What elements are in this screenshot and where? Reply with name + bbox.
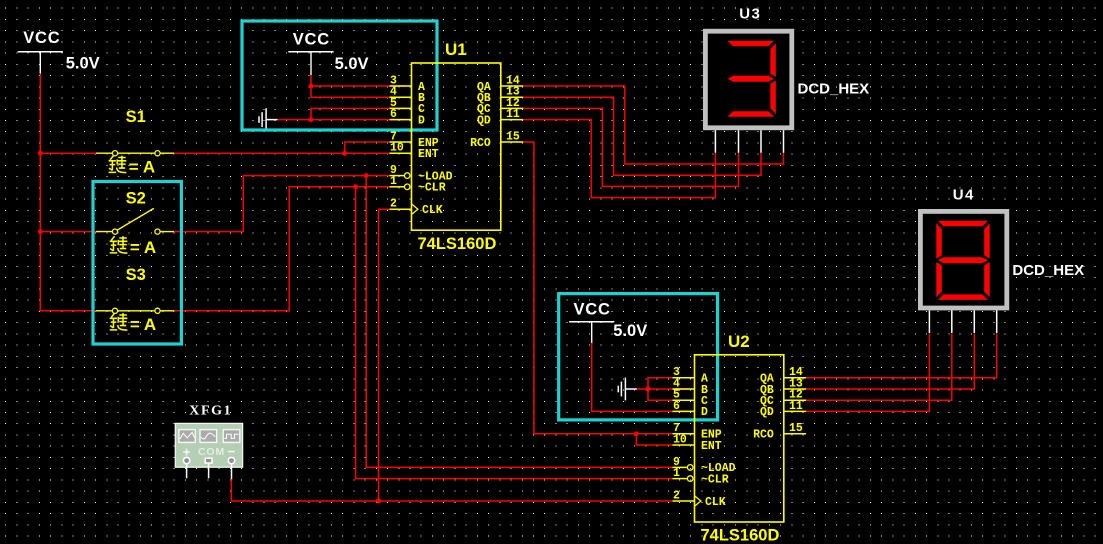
selection box around S2 S3 xyxy=(93,182,181,345)
wire S1 to U1 ENT xyxy=(174,152,390,154)
svg-text:QD: QD xyxy=(760,406,774,419)
wire branch to U2 pin A xyxy=(648,378,689,389)
wire branch to U1 pin B xyxy=(311,86,406,97)
U2 pin 3 A xyxy=(673,377,695,379)
power VCC for U1 xyxy=(288,31,368,76)
U4 display pin 2 xyxy=(951,310,953,333)
U1 pin 7 ENP xyxy=(390,141,412,143)
U2 pin 15 RCO xyxy=(784,433,806,435)
svg-text:10: 10 xyxy=(390,142,404,155)
svg-text:74LS160D: 74LS160D xyxy=(418,235,497,253)
lit segments of digit xyxy=(727,41,774,47)
switch key label for S3 xyxy=(110,313,156,334)
svg-text:5.0V: 5.0V xyxy=(335,55,369,73)
wire ground to U2 pin B xyxy=(637,388,689,390)
svg-text:D: D xyxy=(418,114,425,127)
wire U2 QD to U4 pin1 xyxy=(806,334,930,412)
switch S3 SPST key A bottom xyxy=(96,266,174,313)
U1 pin 5 C xyxy=(390,107,412,109)
U2 pin 9 ~LOAD xyxy=(673,466,688,468)
U2 pin 10 ENT xyxy=(673,444,695,446)
7-segment display U3 DCD_HEX xyxy=(705,31,791,153)
svg-text:RCO: RCO xyxy=(470,137,491,150)
function generator XFG1 xyxy=(175,404,242,480)
svg-text:2: 2 xyxy=(390,198,397,211)
svg-text:CLK: CLK xyxy=(705,496,726,509)
svg-text:= A: = A xyxy=(129,157,155,176)
svg-text:15: 15 xyxy=(789,422,803,435)
U1 pin 6 D xyxy=(390,119,412,121)
U3 display pin 4 xyxy=(783,130,785,153)
wire U1 CLK down to clock bus xyxy=(379,209,390,501)
U1 pin 10 ENT xyxy=(390,152,412,154)
U2 pin 4 B xyxy=(673,388,695,390)
selection box around U2 VCC subcircuit xyxy=(559,294,718,420)
wire junction xyxy=(38,229,43,234)
svg-text:15: 15 xyxy=(506,130,520,143)
U2 pin 7 ENP xyxy=(673,433,695,435)
svg-text:XFG1: XFG1 xyxy=(189,404,232,419)
svg-text:ENT: ENT xyxy=(418,148,439,161)
U1 pin 13 QB xyxy=(501,96,523,98)
svg-text:VCC: VCC xyxy=(293,31,330,49)
svg-text:10: 10 xyxy=(673,433,687,446)
U4 display pin 1 xyxy=(928,310,930,333)
svg-text:~CLR: ~CLR xyxy=(418,182,446,195)
svg-text:5.0V: 5.0V xyxy=(613,322,647,340)
switch key label for S2 xyxy=(110,236,156,257)
wire U2 QB to U4 pin3 xyxy=(806,334,975,389)
wire U1 QA to U3 pin4 xyxy=(523,86,784,164)
ground in U1 VCC box xyxy=(259,108,278,131)
U2 pin 2 CLK xyxy=(673,500,695,502)
svg-text:2: 2 xyxy=(673,489,680,502)
IC U1 74LS160D counter body xyxy=(390,40,524,253)
wire junction xyxy=(353,184,358,189)
wire junction xyxy=(309,117,314,122)
wire branch up to U1 ENP xyxy=(345,142,390,153)
U2 pin 5 C xyxy=(673,399,695,401)
wire VCC to U2 pin D xyxy=(592,343,689,412)
U2 pin 6 D xyxy=(673,410,695,412)
svg-text:VCC: VCC xyxy=(574,301,611,319)
svg-text:CLK: CLK xyxy=(422,204,443,217)
wire rail to S2 xyxy=(40,231,101,233)
U1 pin 9 ~LOAD xyxy=(390,175,405,177)
svg-text:COM: COM xyxy=(198,446,225,458)
wire U2 QC to U4 pin2 xyxy=(806,334,952,401)
svg-text:S2: S2 xyxy=(126,189,146,207)
svg-text:74LS160D: 74LS160D xyxy=(701,527,780,544)
switch S2 SPST key A middle xyxy=(96,189,174,234)
power VCC for U2 xyxy=(569,301,647,343)
wire U1 QD to U3 pin1 xyxy=(523,120,716,198)
svg-text:6: 6 xyxy=(390,108,397,121)
svg-text:5.0V: 5.0V xyxy=(66,54,100,72)
U1 pin 2 CLK xyxy=(390,208,412,210)
svg-text:VCC: VCC xyxy=(23,29,60,47)
wire junction xyxy=(309,84,314,89)
U2 pin 11 QD xyxy=(784,410,806,412)
wire ground to U1 pin D xyxy=(278,119,406,121)
svg-text:D: D xyxy=(701,406,708,419)
U3 display pin 2 xyxy=(738,130,740,153)
svg-text:U3: U3 xyxy=(739,5,761,22)
U3 display pin 1 xyxy=(714,130,716,153)
wire junction xyxy=(646,387,651,392)
wire U1 ~LOAD node down to U2 ~LOAD xyxy=(366,176,672,468)
svg-text:S1: S1 xyxy=(126,108,146,126)
svg-text:U2: U2 xyxy=(728,332,750,351)
svg-text:11: 11 xyxy=(789,400,803,413)
U1 pin 3 A xyxy=(390,85,412,87)
svg-text:11: 11 xyxy=(506,108,520,121)
wire S3 to U1 ~CLR xyxy=(174,187,390,311)
IC U2 74LS160D counter body xyxy=(673,332,807,544)
U1 pin 14 QA xyxy=(501,85,523,87)
switch S1 SPST key A top xyxy=(96,108,174,156)
U1 pin 4 B xyxy=(390,96,412,98)
wire junction xyxy=(38,151,43,156)
power VCC left rail xyxy=(18,29,100,74)
wire U2 QA to U4 pin4 xyxy=(806,334,997,378)
wire U1 ~CLR node down to U2 ~CLR xyxy=(356,187,673,479)
wire VCC to U1 pin A xyxy=(311,75,406,86)
U1 pin 15 RCO xyxy=(501,141,523,143)
svg-text:S3: S3 xyxy=(126,266,146,284)
7-segment display U4 DCD_HEX xyxy=(920,211,1006,333)
selection box around U1 VCC subcircuit xyxy=(242,21,437,130)
svg-text:= A: = A xyxy=(130,238,156,257)
svg-text:RCO: RCO xyxy=(753,429,774,442)
svg-text:U1: U1 xyxy=(445,40,467,59)
wire VCC rail to S1 xyxy=(40,152,96,154)
wire branch to U1 pin C xyxy=(311,108,406,119)
wire VCC rail down left side to S3 xyxy=(40,74,101,311)
U4 display pin 4 xyxy=(996,310,998,333)
wire junction xyxy=(376,499,381,504)
wire branch to U2 pin C xyxy=(648,389,689,400)
wire junction xyxy=(364,173,369,178)
wire XFG1 output clock bus to U2 CLK xyxy=(231,479,672,501)
U2 pin 14 QA xyxy=(784,377,806,379)
wire U1 QB to U3 pin3 xyxy=(523,97,761,175)
wire U1 RCO to U2 ENP xyxy=(523,142,673,434)
svg-text:1: 1 xyxy=(673,467,680,480)
switch key label for S1 xyxy=(109,156,155,177)
wire branch down to U2 ENT xyxy=(636,434,672,445)
U1 pin 1 ~CLR xyxy=(390,186,405,188)
U3 display pin 3 xyxy=(760,130,762,153)
U1 pin 12 QC xyxy=(501,107,523,109)
svg-text:ENT: ENT xyxy=(701,440,722,453)
svg-text:1: 1 xyxy=(390,175,397,188)
U2 pin 1 ~CLR xyxy=(673,478,688,480)
svg-text:U4: U4 xyxy=(953,187,975,204)
svg-text:= A: = A xyxy=(130,315,156,334)
wire junction xyxy=(342,151,347,156)
ground in U2 VCC box xyxy=(618,378,637,401)
U1 pin 11 QD xyxy=(501,119,523,121)
svg-text:~CLR: ~CLR xyxy=(701,473,729,486)
svg-text:DCD_HEX: DCD_HEX xyxy=(1012,262,1084,279)
U2 pin 12 QC xyxy=(784,399,806,401)
lit segments of digit xyxy=(938,221,988,227)
U2 pin 13 QB xyxy=(784,388,806,390)
wire U1 QC to U3 pin2 xyxy=(523,108,739,186)
svg-text:DCD_HEX: DCD_HEX xyxy=(798,81,870,98)
wire junction xyxy=(634,431,639,436)
svg-text:6: 6 xyxy=(673,400,680,413)
wire S2 to U1 ~LOAD xyxy=(174,176,390,232)
svg-text:QD: QD xyxy=(477,114,491,127)
U4 display pin 3 xyxy=(973,310,975,333)
